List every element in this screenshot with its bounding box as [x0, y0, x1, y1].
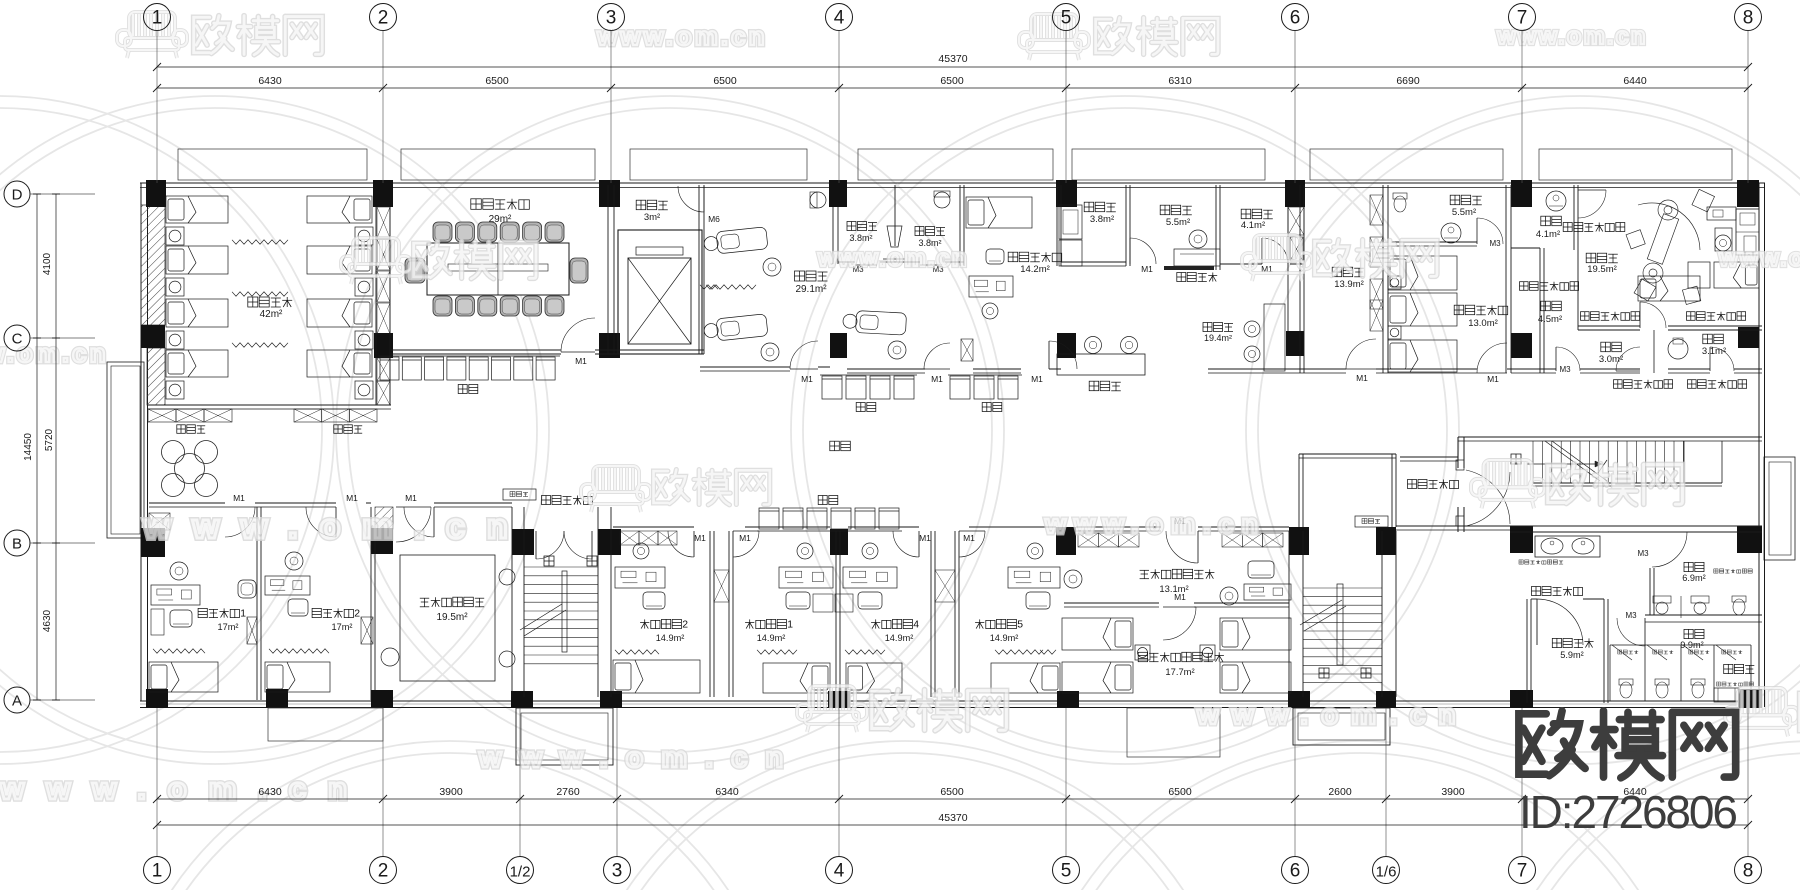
svg-text:M3: M3: [1625, 611, 1637, 620]
svg-text:www.om.cn: www.om.cn: [1196, 699, 1469, 730]
svg-text:17m²: 17m²: [218, 622, 239, 632]
svg-text:www.om.cn: www.om.cn: [143, 508, 530, 546]
svg-text:19.5m²: 19.5m²: [436, 612, 468, 623]
svg-text:1: 1: [152, 861, 163, 882]
svg-text:4: 4: [834, 8, 845, 29]
svg-text:19.5m²: 19.5m²: [1587, 264, 1617, 275]
svg-text:6690: 6690: [1396, 75, 1420, 87]
svg-text:M1: M1: [801, 374, 813, 384]
svg-text:5: 5: [1017, 619, 1023, 630]
svg-text:www.om.cn: www.om.cn: [817, 245, 968, 272]
svg-text:4.1m²: 4.1m²: [1536, 229, 1560, 240]
svg-text:3.8m²: 3.8m²: [1090, 214, 1114, 225]
svg-text:M1: M1: [739, 533, 751, 543]
svg-text:www.om.cn: www.om.cn: [0, 771, 369, 806]
svg-text:M1: M1: [575, 356, 587, 366]
svg-text:45370: 45370: [938, 53, 967, 65]
svg-text:3: 3: [606, 8, 617, 29]
svg-text:6500: 6500: [713, 75, 737, 87]
svg-text:6: 6: [1290, 861, 1301, 882]
svg-text:M1: M1: [963, 533, 975, 543]
svg-text:14.9m²: 14.9m²: [885, 633, 914, 643]
svg-text:B: B: [12, 536, 22, 553]
svg-text:19.4m²: 19.4m²: [1204, 333, 1232, 343]
svg-text:8: 8: [1743, 8, 1754, 29]
svg-text:1/2: 1/2: [510, 864, 531, 881]
svg-text:5.5m²: 5.5m²: [1452, 207, 1476, 218]
svg-text:M1: M1: [919, 533, 931, 543]
svg-text:www.om.cn: www.om.cn: [478, 742, 801, 774]
svg-text:4.1m²: 4.1m²: [1241, 220, 1265, 231]
svg-text:A: A: [12, 693, 22, 710]
svg-text:14.2m²: 14.2m²: [1020, 264, 1050, 275]
svg-text:4100: 4100: [42, 252, 53, 275]
svg-text:3.1m²: 3.1m²: [1702, 346, 1726, 357]
svg-text:14.9m²: 14.9m²: [990, 633, 1019, 643]
svg-text:1: 1: [152, 8, 163, 29]
svg-text:M1: M1: [405, 493, 417, 503]
svg-text:6: 6: [1290, 8, 1301, 29]
svg-text:6340: 6340: [715, 786, 739, 798]
svg-text:45370: 45370: [938, 812, 967, 824]
svg-text:13.0m²: 13.0m²: [1468, 318, 1498, 329]
svg-text:1/6: 1/6: [1376, 864, 1397, 881]
svg-text:29.1m²: 29.1m²: [795, 284, 827, 295]
svg-text:3900: 3900: [439, 786, 463, 798]
svg-text:6.9m²: 6.9m²: [1682, 573, 1706, 583]
svg-text:5.5m²: 5.5m²: [1166, 217, 1190, 228]
svg-text:17.7m²: 17.7m²: [1165, 666, 1194, 677]
svg-text:5: 5: [1061, 861, 1072, 882]
svg-text:4: 4: [834, 861, 845, 882]
svg-text:7: 7: [1517, 861, 1528, 882]
svg-text:6500: 6500: [485, 75, 509, 87]
svg-text:5: 5: [1061, 8, 1072, 29]
svg-text:M6: M6: [708, 214, 720, 224]
svg-text:3m²: 3m²: [644, 212, 660, 223]
svg-text:5720: 5720: [44, 428, 55, 451]
svg-text:M1: M1: [346, 493, 358, 503]
svg-text:M1: M1: [233, 493, 245, 503]
svg-text:1: 1: [240, 608, 246, 619]
svg-text:6500: 6500: [940, 786, 964, 798]
svg-text:2: 2: [378, 861, 389, 882]
svg-text:M1: M1: [1031, 374, 1043, 384]
svg-text:2: 2: [354, 608, 360, 619]
svg-text:6430: 6430: [258, 75, 282, 87]
svg-text:29m²: 29m²: [489, 214, 512, 225]
svg-text:4.5m²: 4.5m²: [1538, 314, 1562, 325]
svg-text:M1: M1: [1174, 592, 1186, 602]
svg-text:2: 2: [378, 8, 389, 29]
svg-text:14450: 14450: [23, 433, 34, 461]
svg-text:17m²: 17m²: [332, 622, 353, 632]
svg-text:4: 4: [913, 619, 919, 630]
svg-text:C: C: [12, 331, 23, 348]
svg-text:www.om.cn: www.om.cn: [1718, 245, 1800, 272]
svg-text:1: 1: [787, 619, 793, 630]
svg-text:13.9m²: 13.9m²: [1334, 279, 1364, 290]
svg-text:7: 7: [1517, 8, 1528, 29]
svg-text:3900: 3900: [1441, 786, 1465, 798]
svg-text:4630: 4630: [42, 609, 53, 632]
svg-text:14.9m²: 14.9m²: [656, 633, 685, 643]
svg-text:www.om.cn: www.om.cn: [1044, 509, 1266, 539]
svg-text:M3: M3: [1559, 365, 1571, 374]
svg-text:ID:2726806: ID:2726806: [1519, 786, 1738, 838]
svg-text:6500: 6500: [1168, 786, 1192, 798]
svg-text:42m²: 42m²: [260, 309, 283, 320]
svg-text:M1: M1: [1356, 373, 1368, 383]
svg-text:14.9m²: 14.9m²: [757, 633, 786, 643]
svg-text:M1: M1: [694, 533, 706, 543]
svg-text:3.8m²: 3.8m²: [849, 233, 872, 243]
svg-text:2760: 2760: [556, 786, 580, 798]
svg-text:6310: 6310: [1168, 75, 1192, 87]
svg-text:3.0m²: 3.0m²: [1599, 354, 1623, 365]
svg-text:D: D: [12, 187, 23, 204]
svg-text:2600: 2600: [1328, 786, 1352, 798]
svg-text:6440: 6440: [1623, 75, 1647, 87]
svg-text:2: 2: [682, 619, 688, 630]
svg-text:M3: M3: [1637, 549, 1649, 558]
svg-text:6500: 6500: [940, 75, 964, 87]
svg-text:M1: M1: [1141, 264, 1153, 274]
svg-text:M3: M3: [1489, 239, 1501, 248]
svg-text:3: 3: [612, 861, 623, 882]
svg-text:5.9m²: 5.9m²: [1560, 650, 1584, 660]
svg-text:M1: M1: [1487, 374, 1499, 384]
svg-text:M1: M1: [931, 374, 943, 384]
svg-text:8: 8: [1743, 861, 1754, 882]
svg-text:6430: 6430: [258, 786, 282, 798]
